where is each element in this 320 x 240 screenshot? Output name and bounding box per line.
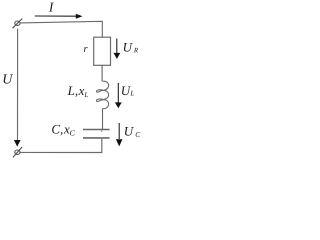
voltage arrow U_C bbox=[116, 123, 123, 146]
voltage arrow U_L bbox=[115, 83, 122, 108]
capacitor C (two plates) bbox=[83, 130, 110, 138]
label U_R bbox=[123, 40, 139, 55]
current arrow I bbox=[35, 14, 83, 19]
wire top (T1 to corner, corner down to resistor) bbox=[20, 21, 102, 37]
svg-text:L: L bbox=[83, 91, 88, 99]
svg-text:C: C bbox=[70, 129, 76, 138]
svg-text:C: C bbox=[135, 130, 141, 139]
svg-text:R: R bbox=[133, 47, 139, 55]
svg-text:L: L bbox=[129, 90, 134, 98]
svg-text:U: U bbox=[123, 40, 134, 55]
svg-text:r: r bbox=[84, 44, 89, 55]
wire inductor to capacitor bbox=[102, 108, 104, 129]
wire stub below top plate bbox=[101, 130, 103, 132]
terminal T2 (bottom-left input) bbox=[13, 147, 22, 157]
resistor r bbox=[94, 37, 111, 65]
svg-text:C,: C, bbox=[51, 121, 63, 136]
label U_L bbox=[121, 83, 135, 98]
terminal T1 (top-left input) bbox=[13, 19, 23, 29]
svg-text:L,: L, bbox=[67, 83, 78, 98]
inductor L (3-loop coil) bbox=[96, 81, 108, 109]
svg-text:U: U bbox=[2, 72, 13, 87]
label U_C bbox=[124, 124, 142, 139]
label L, x_L bbox=[67, 83, 89, 99]
wire capacitor to bottom corner and bottom run bbox=[20, 139, 102, 153]
wire resistor to inductor bbox=[101, 65, 103, 81]
source voltage arrow U (left side) bbox=[14, 29, 21, 147]
voltage arrow U_R bbox=[114, 39, 121, 60]
svg-text:I: I bbox=[48, 0, 55, 14]
svg-text:U: U bbox=[124, 124, 135, 139]
label C, x_C bbox=[51, 121, 75, 137]
